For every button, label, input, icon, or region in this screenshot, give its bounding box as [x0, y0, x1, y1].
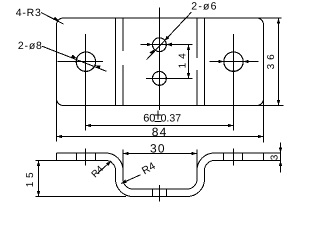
svg-text:2-ø6: 2-ø6 — [191, 1, 217, 13]
dimension line 3 — [280, 143, 282, 173]
svg-text:14: 14 — [177, 49, 188, 68]
centerline vertical hole left — [85, 34, 87, 131]
arrows Ø8 right hole dimension — [57, 18, 281, 138]
centerline right flange hole — [233, 149, 235, 166]
dimension line Ø8 through right hole — [210, 61, 259, 63]
dimension line Ø6 through top hole / extension for 14 — [141, 44, 193, 46]
svg-text:30: 30 — [150, 142, 166, 156]
dimension line 36 — [278, 18, 280, 106]
dimension line 30 — [123, 153, 197, 155]
centerline bottom strip holes — [159, 185, 161, 202]
svg-text:36: 36 — [266, 50, 277, 69]
svg-text:60: 60 — [143, 112, 155, 124]
svg-text:2-ø8: 2-ø8 — [18, 40, 43, 52]
dimension line 15 — [38, 161, 40, 197]
arrows dimension 3 — [279, 148, 283, 154]
arrows dimension 36 — [277, 18, 281, 24]
hole right Ø8 — [224, 52, 243, 71]
bend line right inner (with gap) — [196, 18, 198, 106]
arrows dimension 14 — [187, 45, 191, 51]
bend line right outer — [204, 18, 206, 106]
arrows Ø6 top hole dimension — [147, 43, 153, 47]
end face right — [263, 153, 265, 161]
hole edge ticks right flange — [223, 153, 225, 161]
arrows dimension 15 — [37, 161, 41, 167]
profile bottom surface — [57, 161, 264, 197]
hole edge ticks left flange — [76, 153, 78, 161]
profile top surface — [57, 153, 264, 189]
dimension line 60 — [86, 125, 234, 127]
extension lines dimension 3 — [264, 152, 281, 154]
extension lines dimension 15 — [36, 160, 57, 162]
arrows dimension 60 — [86, 124, 92, 128]
svg-text:15: 15 — [25, 169, 36, 187]
extension stubs dimension 30 — [122, 150, 124, 171]
extension line right plate edge — [263, 98, 265, 143]
extension line left plate edge — [56, 98, 58, 142]
hole bottom Ø6 — [153, 72, 167, 86]
bend line left outer — [115, 18, 117, 106]
svg-text:0.37: 0.37 — [161, 112, 182, 124]
centerline left flange hole — [85, 149, 87, 166]
svg-text:4-R3: 4-R3 — [16, 7, 42, 19]
end face left — [56, 153, 58, 161]
dimension line 14 — [188, 45, 190, 79]
centerline vertical Ø6 holes — [159, 8, 161, 111]
svg-text:R4: R4 — [140, 160, 158, 177]
centerline horizontal bottom Ø6 / extension for 14 — [146, 78, 193, 80]
svg-text:3: 3 — [269, 154, 280, 160]
extension lines dimension 36 — [256, 17, 282, 19]
svg-text:R4: R4 — [89, 164, 105, 180]
hole top Ø6 — [153, 38, 167, 52]
hole left Ø8 — [76, 52, 95, 71]
plate outline (top view 84x36, rounded corners R3) — [57, 18, 264, 106]
dimension line 84 — [57, 136, 264, 138]
centerline vertical hole right — [233, 34, 235, 131]
svg-text:84: 84 — [152, 125, 168, 139]
arrows dimension 30 — [123, 152, 129, 156]
hole edge ticks bottom strip — [152, 189, 154, 197]
centerline horizontal hole left — [58, 61, 104, 63]
bend line left inner (with gap) — [122, 18, 124, 106]
arrows dimension 84 — [57, 135, 63, 139]
